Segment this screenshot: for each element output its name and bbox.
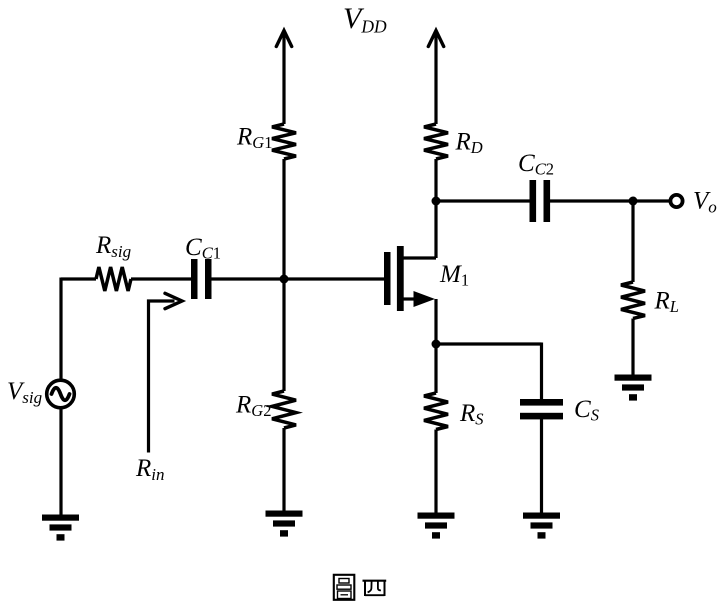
wire: gate node to RG2 xyxy=(282,279,285,391)
transistor M1: source arrow xyxy=(414,291,436,307)
wire: RD to drain node xyxy=(434,159,437,201)
node C: output junction dot xyxy=(629,197,638,206)
wire: RS to ground xyxy=(434,430,437,514)
resistor RS xyxy=(424,393,448,430)
caption: CJK character TU (figure) drawn as strokes xyxy=(334,575,355,600)
wire: gate net, CC1 right plate to M1 gate xyxy=(211,277,384,280)
voltage source Vsig (AC source circle) xyxy=(47,380,75,408)
node B: drain junction dot xyxy=(432,197,441,206)
terminal Vo: open circle xyxy=(670,195,682,207)
wire: CS to ground xyxy=(540,419,543,513)
wire: CS branch vertical top xyxy=(540,343,543,400)
wire: source node to RS xyxy=(434,344,437,393)
wire: drain vertical xyxy=(434,201,437,258)
capacitor CS xyxy=(520,399,563,406)
node A: gate junction dot xyxy=(280,275,289,284)
power VDD arrow over RG1 xyxy=(276,31,291,47)
resistor RD xyxy=(424,124,448,159)
ground for Vsig xyxy=(42,515,79,521)
wire: RG2 to ground xyxy=(282,428,285,511)
power VDD arrow over RD xyxy=(428,31,443,47)
wire: drain node to CC2 xyxy=(436,199,530,202)
resistor Rsig xyxy=(96,267,131,291)
wire: Rsig right to CC1 left plate xyxy=(131,277,192,280)
transistor M1: drain stub xyxy=(404,256,437,259)
resistor RG2 xyxy=(272,391,296,428)
resistor RG1 xyxy=(272,124,296,159)
wire: Vsig-top to Rsig left xyxy=(61,277,96,280)
transistor M1: channel bar xyxy=(397,246,404,311)
wire: left vertical above Vsig xyxy=(59,278,62,381)
wire: RL to ground xyxy=(631,319,634,376)
resistor RL xyxy=(621,282,645,319)
caption: CJK character SI (four) drawn as strokes xyxy=(363,581,387,596)
node D: source junction dot xyxy=(432,340,441,349)
ground for RL xyxy=(615,375,652,381)
transistor M1 NMOS: gate bar xyxy=(384,252,391,305)
capacitor CC1 xyxy=(191,259,198,299)
arrow Rin: input resistance pointer xyxy=(149,301,175,453)
ground for RG2 xyxy=(266,511,303,517)
wire: source vertical xyxy=(434,299,437,345)
wire: RG1 to gate node xyxy=(282,159,285,279)
capacitor CC2 xyxy=(530,180,537,222)
wire: source node to CS branch xyxy=(436,342,542,345)
wire: CC2 to Vo terminal xyxy=(550,199,669,202)
wire: below Vsig to ground xyxy=(59,408,62,516)
transistor M1: source stub xyxy=(404,297,417,300)
ground for RS xyxy=(418,513,455,519)
ground for CS xyxy=(523,513,560,519)
wire: output node to RL xyxy=(631,201,634,282)
